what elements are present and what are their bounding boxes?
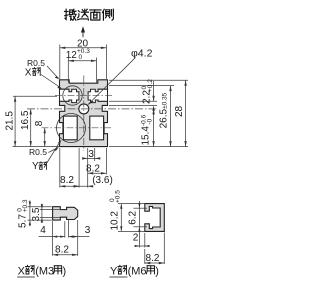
bottom chamber right cavity xyxy=(90,116,104,140)
X detail dim 3.5 top extension line xyxy=(40,208,66,210)
svg-text:φ4.2: φ4.2 xyxy=(131,48,153,60)
svg-text:8.2: 8.2 xyxy=(86,163,100,174)
label X-bu (M3 yo) xyxy=(17,265,66,277)
dim 3 (X detail) xyxy=(69,225,91,238)
X-slot right cavity xyxy=(88,89,107,102)
svg-text:0: 0 xyxy=(79,54,83,61)
X-slot left cavity xyxy=(60,89,79,102)
X detail ext line at x=64.8 xyxy=(64,221,66,237)
dim 12 left extension line xyxy=(67,58,69,83)
dim 8.2 upper xyxy=(86,163,106,174)
svg-text:Y: Y xyxy=(32,161,39,172)
dim 2 (outside arrows) xyxy=(133,233,150,248)
right ext 2.2 bottom xyxy=(109,104,157,106)
dim 4 (X detail) xyxy=(39,225,65,238)
svg-text:28: 28 xyxy=(174,105,185,117)
ext line below profile at x=59.8 xyxy=(59,148,61,188)
dim 5.7 +0.3/0 (outside arrows) xyxy=(17,199,31,228)
right ext top (28) xyxy=(109,79,188,81)
svg-text:8.2: 8.2 xyxy=(55,245,69,256)
centerline vertical xyxy=(83,76,85,152)
svg-text:6.2: 6.2 xyxy=(128,210,139,224)
dim 21.5 xyxy=(4,96,16,146)
svg-text:15.4: 15.4 xyxy=(140,126,151,146)
svg-text:3: 3 xyxy=(85,225,91,236)
svg-text:R0.5: R0.5 xyxy=(27,58,45,68)
ext line below profile at x=94.7 xyxy=(94,148,96,161)
dim 28 xyxy=(174,80,187,146)
X detail ext line at x=52.6 xyxy=(52,221,54,256)
svg-text:-0.6: -0.6 xyxy=(141,114,148,126)
X detail dim 5.7 bottom extension line xyxy=(28,219,52,221)
svg-text:21.5: 21.5 xyxy=(4,111,15,131)
dim 26.5 +-0.35 xyxy=(159,86,172,147)
X detail slot shape xyxy=(53,207,78,220)
svg-text:+0.3: +0.3 xyxy=(22,199,29,212)
svg-text:X: X xyxy=(25,67,32,78)
dim 8 xyxy=(34,120,46,146)
dim 12 +0.3/0 xyxy=(66,48,97,62)
dim 6.2 (outside arrows) xyxy=(128,201,141,234)
svg-text:16.5: 16.5 xyxy=(20,110,31,130)
Y detail chamber shape xyxy=(145,204,165,232)
svg-text:10.2: 10.2 xyxy=(110,211,121,231)
X detail ext line at x=77.7 xyxy=(77,220,79,256)
svg-text:12: 12 xyxy=(66,50,78,61)
svg-text:): ) xyxy=(155,266,159,278)
svg-text:(3.6): (3.6) xyxy=(92,175,113,186)
X detail ext line at x=68.5 xyxy=(68,220,70,238)
Y detail dim 10.2 top extension line xyxy=(118,203,144,205)
svg-text:(M6: (M6 xyxy=(128,266,147,278)
svg-text:(M3: (M3 xyxy=(35,266,54,278)
dim (3.6) outside arrows xyxy=(74,175,113,188)
svg-text:3.5: 3.5 xyxy=(31,207,42,221)
dim 20 left extension line xyxy=(59,45,61,80)
X detail dim 3.5 bottom extension line xyxy=(40,216,66,218)
svg-text:8.2: 8.2 xyxy=(60,175,74,186)
dim 8.2 (Y detail) xyxy=(145,233,165,265)
extrusion profile silhouette xyxy=(60,80,108,147)
svg-text:8.2: 8.2 xyxy=(146,253,160,264)
svg-text:+0.2: +0.2 xyxy=(147,79,154,92)
X detail dim 5.7 top extension line xyxy=(28,206,52,208)
dim 15.4 -0/-0.6 xyxy=(140,109,154,147)
Y detail dim 6.2 bottom extension line xyxy=(134,226,148,228)
svg-text:8: 8 xyxy=(34,120,45,126)
Y-section indicator circle xyxy=(57,114,86,143)
ext line below profile at x=87.7 xyxy=(87,148,89,188)
dim 16.5 xyxy=(20,109,32,147)
svg-text:R0.5: R0.5 xyxy=(29,147,47,157)
up arrow under label xyxy=(81,26,85,37)
svg-text:-0: -0 xyxy=(147,118,154,124)
svg-text:X: X xyxy=(18,266,26,278)
label Y-bu bottom xyxy=(32,161,47,172)
centerline hole horizontal xyxy=(27,108,156,110)
svg-text:2: 2 xyxy=(133,233,139,244)
svg-text:0: 0 xyxy=(141,86,148,90)
leader Y-bu xyxy=(47,141,61,164)
Y detail dim 6.2 top extension line xyxy=(134,207,148,209)
phi 4.2 label xyxy=(87,48,152,106)
label Y-bu (M6 yo) xyxy=(110,265,159,277)
svg-text:Y: Y xyxy=(110,266,118,278)
bottom chamber left cavity xyxy=(63,116,77,140)
centerline X-slot horizontal xyxy=(55,94,112,96)
leader X-bu xyxy=(41,75,61,89)
dim 10.2 +0.5/0 xyxy=(109,190,123,232)
dim 8.2 (X detail) xyxy=(53,245,78,256)
conveying-surface label (hansou-men-gawa) xyxy=(65,9,114,20)
Y detail dim 10.2 bottom extension line xyxy=(118,230,144,232)
X-section indicator circle xyxy=(63,86,82,105)
svg-text:5.7: 5.7 xyxy=(17,214,28,228)
dim 12 right extension line xyxy=(96,58,98,83)
ext for 21.5 xyxy=(13,95,57,97)
svg-text:+0.5: +0.5 xyxy=(114,190,121,203)
dim 8.2 lower-left xyxy=(60,175,79,188)
svg-text:3: 3 xyxy=(88,149,94,160)
right ext bottom shared xyxy=(109,146,188,148)
dim 3 (outside arrows) xyxy=(82,149,101,160)
dim 20 xyxy=(60,39,107,50)
ext line below profile at x=79.1 xyxy=(78,148,80,188)
svg-text:): ) xyxy=(63,266,67,278)
dim 2.2 +0.2/0 xyxy=(141,79,155,111)
leader R0.5 top xyxy=(47,66,59,79)
leader R0.5 bottom xyxy=(49,148,59,153)
right ext 2.2 top xyxy=(109,100,157,102)
right ext 26.5 top xyxy=(109,85,174,87)
center hole (phi 4.2) xyxy=(79,104,89,114)
label X-bu top xyxy=(25,67,40,78)
dim 3.5 (outside arrows) xyxy=(31,204,43,223)
svg-text:4: 4 xyxy=(40,225,46,236)
left bottom shared extension line xyxy=(13,146,60,148)
ext line below profile at x=106.4 xyxy=(105,148,107,175)
dim 20 right extension line xyxy=(105,45,107,80)
centerline chamber horizontal xyxy=(42,127,113,129)
